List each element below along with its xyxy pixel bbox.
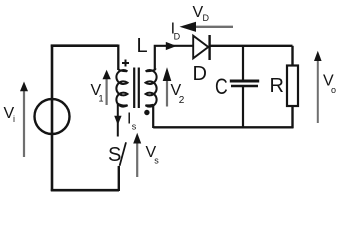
transformer core (134, 68, 139, 109)
Vs arrow (133, 133, 141, 177)
polarity dot secondary (144, 110, 149, 115)
wire secondary top vertical (155, 46, 193, 70)
svg-text:o: o (331, 85, 336, 95)
svg-text:R: R (270, 75, 284, 97)
transformer secondary winding (146, 69, 157, 107)
label Vs (146, 144, 160, 166)
Is current arrowhead (114, 116, 121, 125)
svg-text:i: i (13, 114, 15, 124)
resistor R box (287, 66, 298, 107)
svg-text:s: s (154, 156, 159, 166)
wire capacitor top (242, 47, 244, 80)
wire bottom rail (51, 189, 119, 192)
label V2 (171, 82, 185, 106)
capacitor C plates (230, 81, 259, 86)
polarity + primary (122, 60, 129, 67)
svg-text:D: D (203, 13, 210, 23)
svg-text:1: 1 (99, 94, 104, 104)
V1 arrow (103, 70, 111, 105)
diode D cathode bar (208, 35, 210, 60)
svg-text:C: C (215, 75, 228, 99)
svg-text:D: D (193, 63, 207, 85)
diode D triangle (193, 36, 208, 59)
svg-text:2: 2 (179, 95, 185, 106)
svg-text:I: I (127, 111, 131, 128)
wire diode to top-right corner (209, 45, 293, 47)
wire primary coil to switch with Is arrowhead (117, 103, 119, 137)
Vi arrow (20, 82, 28, 158)
Vo arrow (314, 51, 322, 123)
wire capacitor bottom (242, 87, 244, 128)
wire secondary coil bottom to rail (152, 105, 154, 129)
wire top-left rail (51, 44, 118, 47)
wire left vertical (51, 45, 54, 192)
label Is (127, 111, 137, 132)
wire primary top vertical (117, 45, 119, 71)
switch blade S (120, 142, 126, 166)
ID current arrowhead (166, 42, 177, 50)
label V1 (91, 82, 104, 104)
transformer primary winding (116, 69, 127, 107)
svg-text:D: D (174, 32, 181, 42)
svg-text:S: S (108, 144, 121, 166)
VD arrow (180, 22, 234, 32)
wire below resistor (291, 106, 293, 128)
svg-text:s: s (132, 122, 137, 132)
wire switch to bottom vertical (118, 166, 120, 191)
label Vo (323, 73, 336, 96)
V2 arrow (163, 67, 172, 106)
wire secondary bottom rail (153, 126, 293, 128)
svg-text:L: L (137, 35, 148, 57)
label VD (193, 4, 210, 23)
label Vi (4, 105, 16, 124)
label ID (171, 21, 181, 42)
voltage source Vi (35, 99, 70, 134)
wire right vertical above resistor (291, 46, 293, 66)
